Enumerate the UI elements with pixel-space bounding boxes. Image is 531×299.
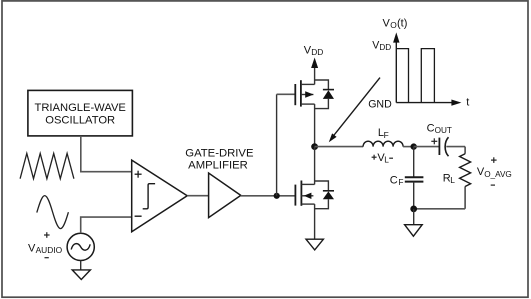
svg-text:DD: DD: [311, 47, 323, 57]
svg-text:L: L: [384, 154, 389, 164]
svg-text:TRIANGLE-WAVE: TRIANGLE-WAVE: [35, 102, 126, 114]
svg-text:AMPLIFIER: AMPLIFIER: [188, 159, 248, 171]
svg-text:OUT: OUT: [435, 126, 452, 135]
svg-text:DD: DD: [379, 43, 391, 52]
svg-text:C: C: [427, 123, 435, 135]
svg-text:t: t: [466, 97, 469, 109]
svg-text:L: L: [450, 175, 455, 185]
svg-text:AUDIO: AUDIO: [36, 245, 63, 255]
svg-text:(t): (t): [397, 18, 407, 30]
svg-text:OSCILLATOR: OSCILLATOR: [45, 115, 115, 127]
svg-text:GATE-DRIVE: GATE-DRIVE: [185, 147, 254, 159]
svg-text:F: F: [384, 130, 389, 140]
svg-text:F: F: [398, 177, 403, 187]
svg-text:C: C: [390, 175, 398, 187]
svg-text:O_AVG: O_AVG: [484, 170, 512, 179]
svg-text:V: V: [383, 18, 391, 30]
svg-text:GND: GND: [368, 99, 392, 111]
